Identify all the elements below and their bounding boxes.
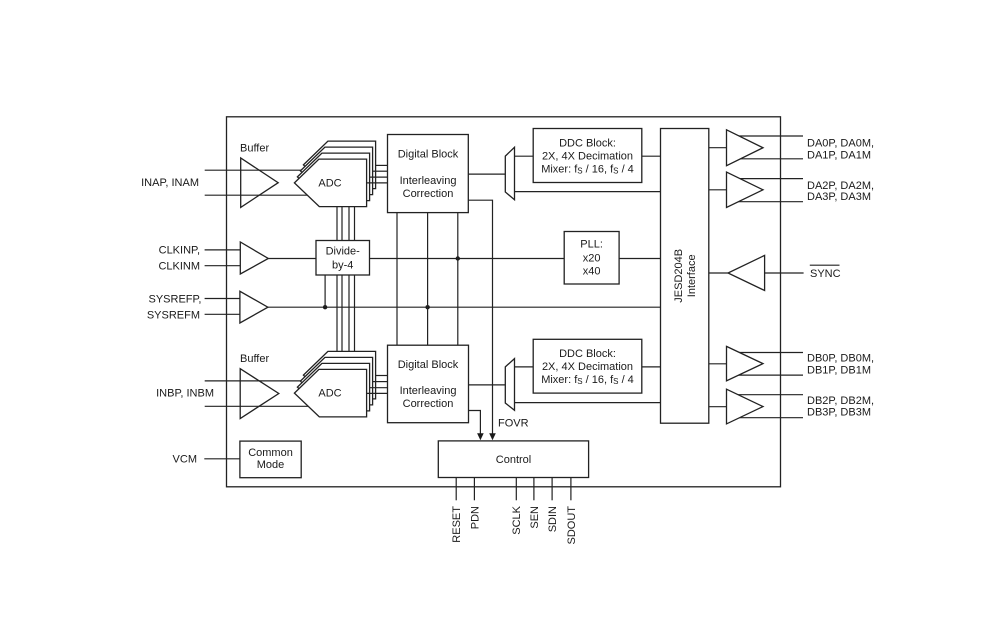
wire output DA0	[729, 135, 803, 137]
wire JESD204B to driver DA23	[709, 189, 727, 191]
block PLL	[564, 232, 619, 285]
wire mux B to DDC B	[515, 366, 534, 368]
wire output DA3	[729, 201, 803, 203]
clock wire vertical 3	[348, 207, 350, 352]
svg-text:RESET: RESET	[451, 506, 463, 543]
svg-text:INAP, INAM: INAP, INAM	[141, 177, 199, 189]
svg-text:FOVR: FOVR	[498, 418, 529, 430]
svg-text:Buffer: Buffer	[240, 353, 269, 365]
wire pin SDOUT	[570, 478, 572, 501]
wire Digital Block B to Control	[469, 411, 481, 435]
wire pin SDIN	[551, 478, 553, 501]
chip boundary box	[227, 117, 781, 487]
wire CLKINM	[205, 265, 241, 267]
svg-text:DA3P, DA3M: DA3P, DA3M	[807, 191, 871, 203]
wire DDC A to JESD204B	[642, 155, 661, 157]
clock wire vertical 2	[341, 207, 343, 352]
arrowhead FOVR into Control	[489, 433, 496, 440]
wire ADC B to Digital Block B bit 2	[373, 381, 388, 383]
svg-text:Interleaving: Interleaving	[400, 385, 457, 397]
block Digital Block B	[388, 345, 469, 423]
wire Divide-by-4 sysref stub	[324, 275, 326, 307]
ADC front page	[294, 369, 366, 417]
output driver DA23	[727, 172, 764, 207]
wire SYSREFM	[205, 313, 240, 315]
wire INBP	[205, 380, 310, 382]
svg-text:SYSREFP,: SYSREFP,	[149, 294, 202, 306]
svg-text:DA1P, DA1M: DA1P, DA1M	[807, 149, 871, 161]
wire pin RESET	[455, 478, 457, 501]
svg-text:Digital Block: Digital Block	[398, 149, 459, 161]
wire mux A bypass to JESD204B	[515, 191, 661, 193]
wire ADC B to Digital Block B bit 3	[370, 387, 388, 389]
svg-text:INBP, INBM: INBP, INBM	[156, 387, 214, 399]
clock wire vertical 4	[354, 207, 356, 352]
svg-text:SDOUT: SDOUT	[566, 506, 578, 545]
svg-text:DA0P, DA0M,: DA0P, DA0M,	[807, 138, 874, 150]
wire ADC B to Digital Block B bit 1	[376, 375, 388, 377]
svg-text:CLKINP,: CLKINP,	[159, 244, 200, 256]
junction dot sysref at digital-block column	[425, 305, 429, 309]
svg-text:2X, 4X Decimation: 2X, 4X Decimation	[542, 361, 633, 373]
wire output DA1	[729, 158, 803, 160]
svg-text:Control: Control	[496, 454, 531, 466]
svg-text:SYSREFM: SYSREFM	[147, 309, 200, 321]
wire JESD204B to driver DB23	[709, 406, 727, 408]
digital block bus vertical 1	[396, 213, 398, 346]
clock wire vertical 1	[336, 207, 338, 352]
svg-text:Correction: Correction	[403, 398, 454, 410]
wire pin SEN	[533, 478, 535, 501]
svg-text:ADC: ADC	[318, 388, 341, 400]
junction dot sysref at divide stub	[323, 305, 327, 309]
svg-text:ADC: ADC	[318, 177, 341, 189]
wire SYNC	[765, 272, 804, 274]
ADC stacked page	[297, 363, 369, 411]
wire PLL to JESD204B	[619, 258, 660, 260]
sysref input buffer	[240, 291, 268, 323]
wire FOVR from Digital Block A to Control	[468, 200, 492, 434]
wire CLK buffer to Divide-by-4	[268, 258, 316, 260]
wire output DB3	[729, 417, 803, 419]
wire output DA2	[729, 178, 803, 180]
svg-text:CLKINM: CLKINM	[158, 260, 200, 272]
wire Digital Block A to mux A	[468, 173, 505, 175]
wire DDC B to JESD204B	[642, 366, 661, 368]
wire pin SCLK	[515, 478, 517, 501]
junction dot clock net	[456, 256, 460, 260]
block Digital Block A	[388, 135, 469, 213]
wire mux B bypass to JESD204B	[515, 402, 661, 404]
wire INBM	[205, 405, 310, 407]
svg-text:Mode: Mode	[257, 459, 285, 471]
svg-text:SCLK: SCLK	[511, 505, 523, 534]
wire ADC B to Digital Block B bit 4	[367, 392, 388, 394]
wire SYSREF net	[268, 306, 661, 308]
wire SYSREFP	[205, 298, 240, 300]
SYNC receiver triangle	[728, 255, 765, 290]
ADC front page	[294, 159, 366, 207]
block Common Mode	[240, 441, 301, 478]
ADC stacked page	[300, 147, 372, 195]
wire JESD204B to driver DB01	[709, 363, 727, 365]
output driver DB23	[727, 389, 764, 424]
svg-text:Mixer: fS / 16, fS / 4: Mixer: fS / 16, fS / 4	[541, 374, 634, 386]
ADC stacked page	[300, 357, 372, 405]
svg-text:SDIN: SDIN	[547, 506, 559, 532]
block Control	[438, 441, 588, 478]
svg-text:PLL:: PLL:	[580, 238, 603, 250]
mux trapezoid B	[505, 359, 514, 411]
svg-text:Common: Common	[248, 447, 293, 459]
ADC stacked page	[297, 153, 369, 201]
svg-text:Interleaving: Interleaving	[400, 175, 457, 187]
svg-text:DB3P, DB3M: DB3P, DB3M	[807, 407, 871, 419]
block Divide-by-4	[316, 241, 370, 276]
wire JESD204B to driver DA01	[709, 147, 727, 149]
digital block bus vertical 3	[457, 213, 459, 346]
svg-text:DB1P, DB1M: DB1P, DB1M	[807, 364, 871, 376]
wire VCM	[204, 458, 240, 460]
wire output DB2	[729, 394, 803, 396]
block JESD204B Interface	[661, 129, 709, 424]
wire ADC A to Digital Block A bit 3	[370, 176, 388, 178]
svg-text:SEN: SEN	[529, 506, 541, 529]
buffer amplifier A	[241, 158, 279, 207]
svg-text:Divide-: Divide-	[326, 245, 361, 257]
svg-text:DDC Block:: DDC Block:	[559, 137, 616, 149]
svg-text:DDC Block:: DDC Block:	[559, 348, 616, 360]
svg-text:by-4: by-4	[332, 260, 353, 272]
svg-text:2X, 4X Decimation: 2X, 4X Decimation	[542, 150, 633, 162]
output driver DA01	[727, 130, 764, 166]
svg-text:DB2P, DB2M,: DB2P, DB2M,	[807, 395, 874, 407]
ADC stacked page	[303, 351, 375, 399]
clock input buffer	[240, 242, 268, 274]
wire Divide-by-4 to PLL	[370, 258, 565, 260]
wire CLKINP	[205, 249, 241, 251]
wire ADC A to Digital Block A bit 1	[376, 164, 388, 166]
svg-text:x40: x40	[583, 265, 601, 277]
ADC stacked page	[303, 141, 375, 189]
buffer amplifier B	[240, 369, 279, 419]
digital block bus vertical 2	[427, 213, 429, 346]
wire INAM	[205, 194, 310, 196]
block DDC B	[533, 339, 642, 393]
arrowhead Digital Block B into Control	[477, 433, 484, 440]
wire ADC A to Digital Block A bit 2	[373, 170, 388, 172]
svg-text:JESD204BInterface: JESD204BInterface	[673, 249, 698, 303]
svg-text:PDN: PDN	[469, 506, 481, 529]
wire JESD204B to SYNC receiver	[709, 272, 728, 274]
output driver DB01	[727, 346, 764, 380]
wire ADC A to Digital Block A bit 4	[367, 182, 388, 184]
block DDC A	[533, 129, 642, 183]
svg-text:Buffer: Buffer	[240, 143, 269, 155]
svg-text:VCM: VCM	[173, 454, 197, 466]
svg-text:Digital Block: Digital Block	[398, 359, 459, 371]
wire mux A to DDC A	[515, 155, 534, 157]
wire pin PDN	[473, 478, 475, 501]
svg-text:x20: x20	[583, 252, 601, 264]
svg-text:SYNC: SYNC	[810, 268, 841, 280]
wire Digital Block B to mux B	[469, 384, 506, 386]
wire output DB0	[729, 352, 803, 354]
mux trapezoid A	[505, 147, 514, 199]
wire output DB1	[729, 374, 803, 376]
svg-text:Mixer: fS / 16, fS / 4: Mixer: fS / 16, fS / 4	[541, 163, 634, 175]
svg-text:Correction: Correction	[403, 188, 454, 200]
svg-text:DB0P, DB0M,: DB0P, DB0M,	[807, 352, 874, 364]
wire INAP	[205, 169, 310, 171]
